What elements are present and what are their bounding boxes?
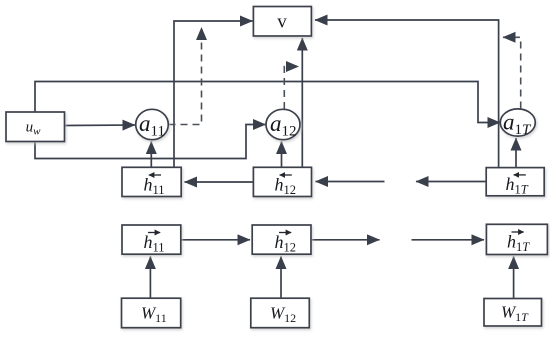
wire: forward arrow segment from h12f rightward (311, 239, 380, 241)
wire: forward arrow segment into h1Tf (412, 239, 485, 241)
box W11 (122, 298, 181, 328)
box h-back-11 (122, 167, 181, 196)
box h-back-1T (486, 168, 544, 196)
wire: h11f to h12f forward arrow (181, 239, 250, 241)
wire: u_w top up, across, down into a1T (35, 82, 500, 123)
circle a11 (136, 109, 169, 139)
box h-fwd-1T (486, 224, 547, 254)
dashed wire: a12 top up, right into v bottom line (284, 67, 298, 110)
wire: backward arrow segment into h12 from right (316, 181, 385, 183)
wire: W11 up into h11f (149, 257, 151, 299)
box u_w (6, 112, 65, 142)
wire: u_w bottom down, across, up into a12 (35, 125, 266, 159)
box W12 (251, 298, 309, 328)
box h-fwd-11 (122, 225, 181, 254)
box h-fwd-12 (252, 225, 311, 254)
wire: arrow h1T box up into a1T (515, 138, 517, 168)
circle a12 (266, 109, 300, 139)
circle a1T (500, 109, 535, 136)
wire: W12 up into h12f (280, 257, 282, 299)
dashed wire: a1T top up, left into v right line (503, 37, 521, 108)
box W1T (484, 299, 542, 327)
box v (253, 7, 311, 37)
wire: h12 to h11 backward arrow (185, 181, 254, 183)
box h-back-12 (253, 167, 311, 196)
wire: u_w right into a11 (65, 124, 136, 127)
wire: h11 back-hidden up to v (left input) (174, 21, 253, 167)
wire: W1T up into h1Tf (513, 257, 515, 299)
dashed wire: a11 right, up into v input line (169, 28, 202, 125)
wire: backward arrow segment from h1T leftward (416, 181, 486, 183)
wire: h12 back-hidden up into v bottom (301, 38, 303, 167)
wire: arrow h12 box up into a12 (281, 142, 283, 168)
wire: arrow h11 box up into a11 (150, 142, 152, 168)
svg-text:v: v (277, 12, 287, 33)
wire: h1T back-hidden up and left into v (right input) (315, 20, 499, 168)
